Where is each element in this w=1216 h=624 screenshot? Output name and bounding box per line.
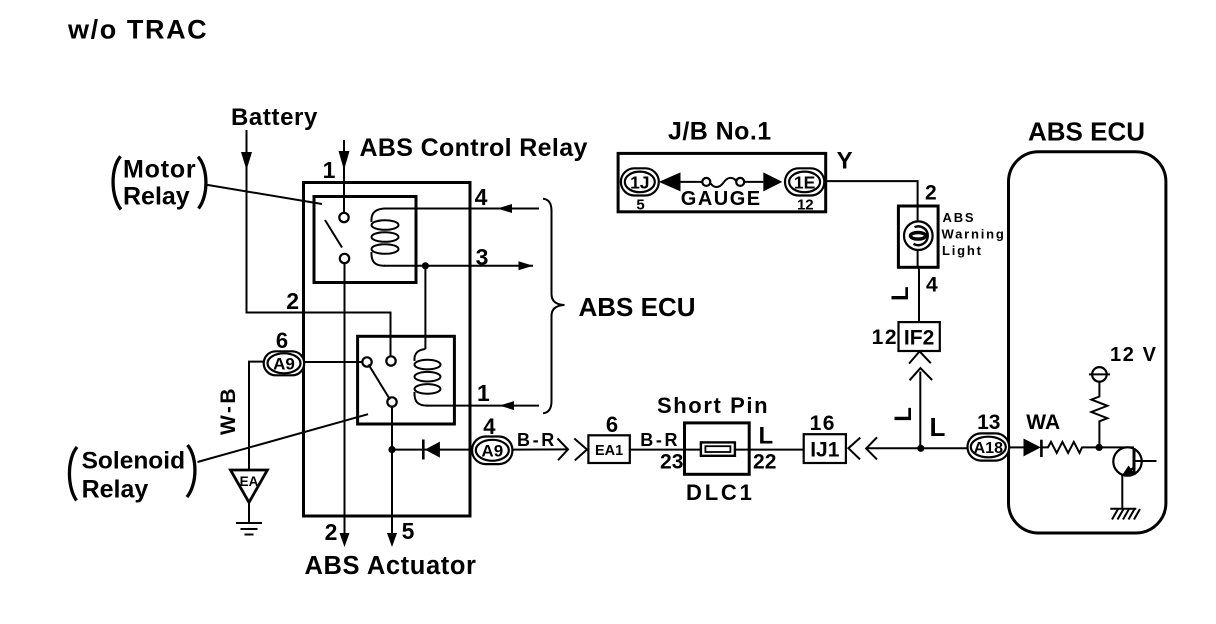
pointer line solenoid relay (198, 414, 369, 462)
svg-text:1: 1 (477, 380, 490, 406)
wire A9 to relay contact (304, 361, 363, 363)
junction block J/B No.1 box (618, 153, 826, 211)
wire junction to A9 lower (392, 449, 472, 451)
wire solenoid coil to pin1 line (426, 405, 539, 407)
svg-text:ABS ECU: ABS ECU (579, 292, 696, 322)
arrow out of pin3 (519, 261, 534, 270)
svg-text:1E: 1E (794, 172, 815, 192)
wire motor relay output to pin2 bottom (344, 263, 346, 538)
diode D2 (1024, 439, 1042, 458)
svg-text:2: 2 (286, 288, 299, 314)
svg-text:L: L (930, 412, 946, 442)
connector 1J (621, 168, 659, 195)
switch blade motor relay (325, 220, 342, 248)
ground EA triangle (231, 470, 268, 502)
svg-text:12 V: 12 V (1110, 344, 1158, 366)
contact upper (motor relay) (339, 213, 348, 222)
svg-text:L: L (759, 423, 774, 450)
svg-text:ABS Control Relay: ABS Control Relay (360, 134, 588, 162)
connector IJ1 (804, 434, 846, 463)
svg-text:EA: EA (240, 474, 259, 489)
svg-text:Solenoid: Solenoid (82, 447, 185, 474)
svg-text:L: L (890, 407, 917, 422)
svg-text:A9: A9 (273, 355, 295, 374)
wire IJ1 to A18 (867, 447, 968, 449)
svg-text:Short Pin: Short Pin (657, 393, 769, 418)
svg-text:Light: Light (942, 243, 983, 258)
wire A18 into ECU (1009, 446, 1024, 448)
svg-text:Relay: Relay (82, 475, 149, 503)
svg-text:Battery: Battery (231, 104, 318, 131)
svg-text:1: 1 (323, 157, 336, 183)
ABS warning light box (898, 206, 938, 267)
svg-text:12: 12 (797, 197, 814, 214)
svg-text:EA1: EA1 (595, 443, 623, 459)
svg-text:B-R: B-R (517, 430, 557, 450)
svg-text:WA: WA (1026, 411, 1060, 434)
lamp symbol (904, 221, 933, 250)
arrow into pin4 (498, 204, 513, 213)
svg-text:Relay: Relay (123, 182, 190, 210)
svg-text:3: 3 (476, 244, 489, 270)
wire coil bottom / pin3 line (384, 265, 533, 267)
resistor R1 horizontal (1041, 442, 1134, 453)
svg-text:DLC1: DLC1 (686, 480, 755, 505)
arrow to ABS actuator pin2 (340, 533, 350, 547)
svg-text:Warning: Warning (942, 227, 1006, 242)
svg-text:W-B: W-B (217, 386, 240, 435)
connector A9 lower (472, 437, 512, 465)
ABS ECU box (1009, 152, 1166, 533)
connector DLC1 box (685, 423, 750, 474)
coil solenoid relay (414, 349, 440, 406)
connector chevron up outer (910, 368, 933, 380)
connector EA1 (588, 435, 629, 463)
wire through DLC1 (685, 449, 750, 451)
coil motor relay (371, 209, 398, 266)
connector IF2 (899, 322, 940, 351)
svg-text:16: 16 (810, 412, 836, 435)
connector A9 upper (264, 351, 305, 375)
svg-text:5: 5 (636, 197, 644, 214)
junction base node (1096, 444, 1103, 451)
wire EA to ground (248, 502, 250, 522)
ground symbol earth (236, 523, 262, 535)
svg-text:22: 22 (753, 451, 776, 474)
svg-text:4: 4 (926, 274, 938, 297)
label ABS Warning Light (942, 210, 1006, 258)
arrow battery down (241, 152, 252, 170)
wire fuse left (681, 181, 703, 183)
svg-text:2: 2 (925, 182, 937, 205)
wire A9 to EA ground (249, 362, 264, 470)
svg-text:23: 23 (660, 451, 683, 474)
contact lower (motor relay) (340, 254, 349, 263)
connector A18 (968, 433, 1010, 460)
switch blade solenoid relay (369, 365, 391, 400)
svg-text:IJ1: IJ1 (810, 439, 840, 462)
wire emitter to ground (1121, 475, 1123, 509)
wire branch up to IF2 (919, 372, 921, 449)
fuse GAUGE (702, 178, 744, 187)
label (Motor Relay) (113, 156, 206, 211)
short pin symbol (701, 442, 735, 455)
contact top (solenoid relay) (386, 356, 395, 365)
wire DLC1 to IJ1 (749, 449, 804, 451)
contact bottom (solenoid relay) (387, 397, 396, 406)
power symbol 12V (1089, 367, 1110, 382)
svg-text:2: 2 (325, 519, 338, 545)
wire junction to solenoid coil (424, 266, 426, 349)
relay outer box (304, 183, 471, 517)
transistor Q1 (1113, 447, 1156, 476)
svg-text:A18: A18 (974, 440, 1003, 457)
svg-text:ABS: ABS (943, 210, 976, 225)
junction L branch (917, 445, 924, 452)
svg-text:ABS Actuator: ABS Actuator (305, 552, 477, 580)
svg-text:ABS ECU: ABS ECU (1028, 117, 1145, 147)
connector chevrons right (512, 439, 587, 461)
wire EA1 to DLC1 (630, 449, 685, 451)
connector chevron up inner (909, 351, 931, 363)
wire coil top / pin4 line (384, 208, 539, 210)
svg-text:6: 6 (606, 412, 618, 437)
connector chevrons left pair (848, 437, 877, 459)
label (Solenoid Relay) (69, 445, 195, 503)
contact left (solenoid relay) (362, 357, 371, 366)
svg-text:5: 5 (402, 518, 415, 544)
wire 1E to warning light (824, 181, 917, 206)
svg-text:L: L (887, 286, 914, 301)
arrow fuse right (763, 172, 782, 191)
arrow into pin1 (500, 401, 514, 410)
wire battery feed (247, 130, 391, 356)
wire IF2 to warning light (918, 267, 920, 322)
wire fuse right (744, 181, 763, 183)
svg-text:IF2: IF2 (904, 327, 934, 350)
svg-text:4: 4 (483, 414, 496, 439)
bracket ABS ECU (543, 199, 565, 413)
pointer line motor relay (205, 185, 322, 205)
svg-text:1J: 1J (630, 172, 649, 192)
motor relay box (314, 197, 416, 283)
svg-text:B-R: B-R (640, 430, 680, 450)
wire solenoid output down to pin5 (391, 407, 393, 539)
ground chassis hatched (1110, 509, 1140, 520)
svg-text:A9: A9 (481, 442, 503, 461)
svg-text:Motor: Motor (123, 156, 196, 184)
diode D1 (423, 440, 440, 460)
svg-text:w/o TRAC: w/o TRAC (67, 15, 208, 45)
svg-text:Y: Y (837, 148, 853, 175)
wire through lamp box (917, 206, 919, 267)
arrow to ABS actuator pin5 (387, 533, 397, 547)
arrow pin1 down (339, 151, 350, 170)
svg-text:J/B No.1: J/B No.1 (668, 118, 772, 146)
resistor R2 vertical (1091, 382, 1107, 448)
junction coil bottom (422, 262, 429, 269)
svg-text:6: 6 (276, 328, 288, 353)
svg-text:4: 4 (475, 184, 488, 210)
connector 1E (785, 168, 824, 195)
junction diode branch (388, 446, 395, 453)
svg-text:12: 12 (872, 326, 898, 349)
solenoid relay box (358, 336, 455, 424)
svg-text:13: 13 (977, 411, 1000, 434)
wire ABS control relay pin1 (343, 140, 345, 213)
arrow fuse left (659, 172, 681, 191)
svg-text:GAUGE: GAUGE (681, 188, 762, 210)
